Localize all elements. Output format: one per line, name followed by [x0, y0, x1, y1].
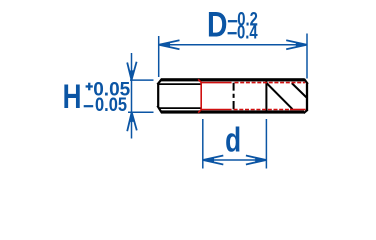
red thread line bottom right solid part — [290, 109, 306, 111]
red thread line bottom dashed part — [234, 109, 290, 111]
part outline: left end face — [157, 84, 159, 107]
part outline: bottom edge — [161, 110, 304, 113]
part outline: top edge — [161, 78, 305, 81]
red chamfer top — [198, 79, 201, 82]
part outline: right end face — [306, 84, 308, 111]
H tolerance minus sign — [84, 105, 94, 107]
red chamfer bottom — [198, 110, 201, 113]
thread minor line top (black, left section) — [159, 83, 201, 85]
D right extension line — [306, 34, 308, 79]
H dimension line vertical — [131, 53, 133, 139]
H bottom arrowhead (up) — [127, 112, 137, 131]
D dimension line — [159, 44, 307, 46]
chamfer bottom-left — [157, 106, 161, 113]
d dimension line — [203, 159, 267, 161]
red thread line bottom solid part — [201, 109, 231, 111]
H top arrowhead (down) — [127, 62, 136, 80]
chamfer bottom-right — [304, 110, 308, 113]
svg-text:H: H — [63, 79, 82, 116]
svg-text:d: d — [225, 120, 241, 160]
d right extension line — [265, 119, 267, 169]
D right arrowhead — [286, 40, 307, 49]
red thread line top solid part — [201, 82, 231, 84]
tolerance minus sign (upper) — [228, 20, 237, 22]
red thread line top dashed part — [235, 82, 306, 84]
thread minor line bottom (black, left section) — [159, 107, 201, 109]
plus sign vertical bar — [88, 83, 90, 91]
section boundary vertical line — [265, 79, 267, 113]
d left extension line — [202, 119, 204, 169]
H top extension line — [130, 79, 154, 81]
svg-text:0.4: 0.4 — [237, 22, 258, 43]
svg-text:D: D — [207, 4, 227, 44]
thread start red vertical line — [200, 82, 202, 110]
svg-text:0.05: 0.05 — [95, 93, 127, 115]
D left arrowhead — [159, 40, 180, 49]
H bottom extension line — [128, 111, 154, 113]
plus sign horizontal bar — [86, 85, 93, 87]
diagonal line 2 — [292, 83, 307, 97]
tolerance minus sign (lower) — [228, 32, 237, 34]
diagonal line 1 — [267, 83, 293, 109]
incomplete-thread dashed vertical line — [233, 83, 235, 110]
chamfer top-left — [157, 79, 161, 84]
chamfer top-right — [304, 79, 308, 84]
d right arrowhead — [246, 156, 266, 165]
D left extension line — [158, 36, 160, 77]
d left arrowhead — [203, 156, 223, 165]
